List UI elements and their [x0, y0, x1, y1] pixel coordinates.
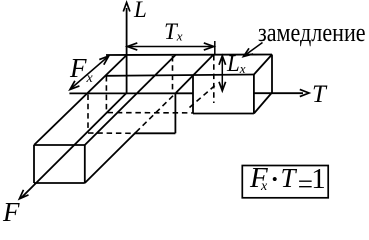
label T: [312, 81, 326, 109]
box A top-right edge: [85, 55, 176, 145]
box C front-left vertical: [192, 75, 194, 114]
L axis arrowhead: [123, 3, 130, 12]
box B top-right edge: [176, 55, 213, 93]
box C top-right edge: [254, 55, 272, 75]
box A front face: [34, 144, 85, 146]
L_x dimension line: [221, 57, 223, 90]
formula box: [242, 166, 328, 198]
T_x dimension line: [128, 41, 215, 55]
замедление arrow: [246, 43, 263, 55]
box B bottom-right edge (hidden): [190, 85, 216, 108]
box B front-bottom edge: [135, 132, 176, 134]
box A bottom-right edge (hidden part): [136, 93, 176, 132]
box A back-right vertical (hidden): [172, 56, 174, 92]
back-top edge: [106, 54, 272, 57]
box B front-right vertical: [174, 93, 176, 134]
F_x dimension line: [71, 57, 108, 89]
box A front-left vertical: [33, 145, 35, 183]
T axis arrowhead: [300, 89, 309, 96]
label замедление: [258, 18, 366, 48]
box C bottom-right edge: [254, 93, 272, 114]
label T_x: [164, 19, 183, 45]
label L_x: [227, 51, 246, 77]
box B front-bottom edge (hidden): [88, 132, 135, 134]
box A bottom-right edge: [85, 132, 136, 183]
box C front-right vertical: [253, 75, 255, 114]
box B back-right vertical (hidden): [213, 55, 215, 103]
formula text: [250, 162, 268, 195]
box C front-bottom edge (hidden): [108, 112, 194, 114]
box A top-left edge: [34, 55, 127, 145]
box C front-left vertical (hidden): [105, 76, 107, 111]
label L: [134, 0, 147, 23]
L axis: [126, 8, 128, 93]
box B front-left vertical (hidden): [87, 95, 89, 132]
box C front-top long edge: [106, 75, 254, 76]
T axis: [69, 92, 193, 94]
box C front-bottom edge: [193, 113, 254, 115]
label F: [3, 197, 20, 228]
box C back-right vertical: [271, 55, 273, 93]
label F_x: [70, 53, 93, 87]
F axis arrowhead: [19, 190, 28, 199]
F axis: [22, 93, 127, 198]
